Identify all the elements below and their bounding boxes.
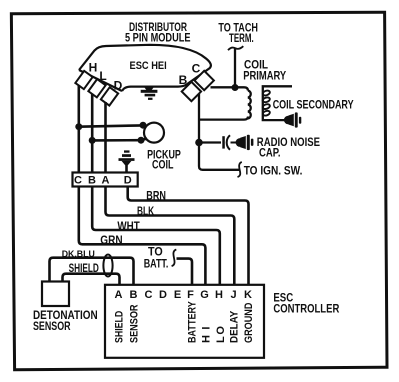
svg-text:G: G — [200, 289, 209, 301]
svg-text:CONTROLLER: CONTROLLER — [273, 302, 339, 316]
svg-text:BLK: BLK — [137, 204, 154, 218]
svg-text:SHIELD: SHIELD — [69, 261, 100, 275]
svg-text:5 PIN MODULE: 5 PIN MODULE — [125, 31, 191, 45]
svg-text:C: C — [192, 61, 201, 75]
svg-text:SENSOR: SENSOR — [129, 304, 141, 343]
svg-text:SHIELD: SHIELD — [114, 311, 126, 343]
svg-text:A: A — [115, 289, 123, 301]
svg-text:CAP.: CAP. — [259, 146, 281, 160]
svg-text:C: C — [145, 289, 153, 301]
svg-text:D: D — [124, 175, 132, 187]
svg-text:B: B — [179, 73, 188, 87]
svg-text:GRN: GRN — [100, 233, 122, 247]
svg-text:PRIMARY: PRIMARY — [243, 69, 286, 83]
svg-text:E: E — [174, 289, 181, 301]
svg-text:D: D — [159, 289, 167, 301]
svg-text:SENSOR: SENSOR — [33, 319, 71, 333]
svg-text:BATTERY: BATTERY — [187, 301, 199, 343]
svg-text:COIL SECONDARY: COIL SECONDARY — [273, 98, 354, 112]
svg-text:ESC HEI: ESC HEI — [130, 60, 167, 72]
svg-text:LO: LO — [215, 326, 227, 343]
svg-text:F: F — [187, 289, 194, 301]
svg-text:B: B — [130, 289, 138, 301]
svg-text:DK.BLU: DK.BLU — [62, 249, 95, 260]
svg-text:TO IGN. SW.: TO IGN. SW. — [244, 164, 303, 178]
svg-text:GROUND: GROUND — [243, 303, 255, 343]
svg-text:H: H — [215, 289, 223, 301]
svg-text:L: L — [99, 69, 106, 83]
svg-text:TERM.: TERM. — [229, 31, 254, 45]
svg-text:BATT.: BATT. — [144, 256, 169, 270]
svg-text:B: B — [88, 175, 96, 187]
svg-text:WHT: WHT — [117, 219, 140, 233]
svg-text:DELAY: DELAY — [229, 310, 241, 343]
svg-text:A: A — [102, 175, 110, 187]
svg-text:K: K — [244, 289, 252, 301]
svg-text:D: D — [114, 78, 123, 92]
svg-text:H: H — [89, 61, 98, 75]
svg-text:COIL: COIL — [152, 157, 174, 171]
svg-text:J: J — [230, 289, 236, 301]
svg-text:C: C — [74, 175, 82, 187]
svg-text:BRN: BRN — [146, 188, 166, 202]
